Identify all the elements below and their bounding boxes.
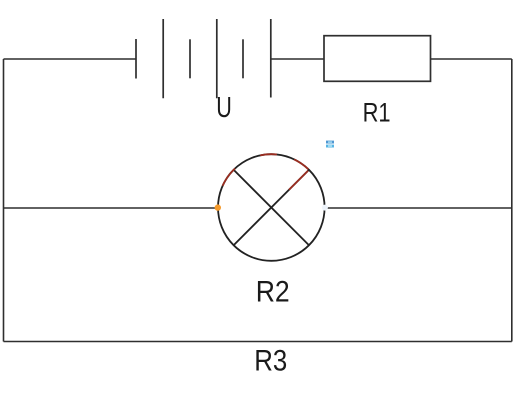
svg-text:R1: R1 [363, 98, 391, 128]
wire top-left segment (left border to battery) [4, 58, 137, 60]
wire left border [3, 59, 5, 342]
wire R1 to right border [431, 58, 512, 60]
annotation red arc top of lamp [260, 154, 277, 155]
node right terminal of lamp (pale dot) [322, 205, 328, 211]
wire middle-left (left border to lamp) [4, 207, 219, 209]
annotation red arc upper-left of lamp [223, 169, 235, 186]
annotation blue equals icon [326, 141, 334, 148]
svg-text:U: U [216, 92, 232, 124]
wire battery to R1 [271, 58, 324, 60]
wire bottom (R3 branch) [4, 341, 512, 343]
annotation red segment on upper-right diagonal [289, 171, 308, 190]
annotation red arc upper-right of lamp [294, 159, 308, 169]
wire middle-right (lamp to right border) [325, 207, 512, 209]
svg-text:R2: R2 [256, 276, 290, 309]
wire right border [511, 59, 513, 342]
resistor R1 [324, 36, 431, 82]
node left terminal of lamp (orange dot) [215, 204, 221, 210]
svg-text:R3: R3 [254, 344, 287, 377]
lamp R2 (circle with X) [218, 154, 325, 261]
battery U (three cells, alternating short/long plates) [136, 19, 271, 98]
